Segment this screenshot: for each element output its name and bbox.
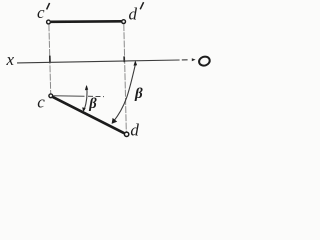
rotation arc arrow at line cd bbox=[112, 118, 118, 124]
line c'd' (front view, thick horizontal) bbox=[51, 20, 121, 23]
rotation arc d to axis bbox=[113, 64, 135, 122]
arc arrow top bbox=[85, 85, 88, 90]
projector c'c (thin vertical) bbox=[49, 24, 51, 93]
x-axis dashed end bbox=[182, 59, 188, 61]
svg-text:d: d bbox=[130, 120, 139, 139]
point c' bbox=[47, 20, 51, 24]
horizontal reference line at c (solid then dashed) bbox=[53, 95, 84, 98]
x-axis bbox=[17, 60, 180, 63]
projector d'd (thin vertical) bbox=[124, 24, 127, 132]
svg-text:d: d bbox=[129, 5, 138, 24]
arc arrow bottom bbox=[82, 107, 86, 112]
label d' bbox=[129, 2, 144, 23]
svg-text:β: β bbox=[134, 86, 143, 102]
angle arc at c bbox=[84, 86, 87, 110]
point d bbox=[124, 132, 128, 136]
x-axis end arrow dash bbox=[192, 58, 196, 61]
point c bbox=[49, 94, 53, 98]
label O (drawn italic oval) bbox=[198, 55, 211, 67]
svg-text:β: β bbox=[88, 96, 97, 112]
point d' bbox=[122, 20, 126, 24]
tick on projector at axis bbox=[49, 56, 51, 63]
svg-text:c: c bbox=[37, 93, 45, 112]
label c' bbox=[37, 3, 50, 22]
tick on projector d'd at axis bbox=[123, 56, 125, 62]
line cd (top view, thick) bbox=[53, 97, 125, 133]
svg-text:c: c bbox=[37, 3, 45, 22]
svg-text:x: x bbox=[6, 50, 15, 69]
rotation arc arrow at axis bbox=[134, 60, 138, 65]
